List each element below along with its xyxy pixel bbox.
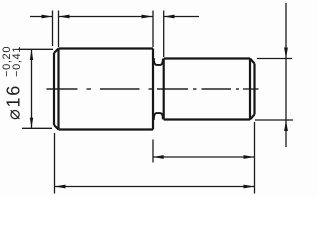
small diameter bottom extension line [255,119,293,121]
top dimension line right segment [164,16,199,18]
diameter 16 top extension line [18,48,53,50]
large cylinder body outline [54,49,153,130]
small cylinder right chamfer edge line [249,59,251,120]
small diameter top extension line [257,58,292,60]
diameter 16 bottom extension line [22,127,52,129]
small cylinder length dimension line [153,156,255,158]
svg-text:⌀16: ⌀16 [4,84,24,120]
arrowhead dia16 down [30,118,33,129]
top dimension line middle segment [59,16,154,18]
arrowhead groove dim right (points left) [164,15,175,19]
left chamfer top diagonal [54,49,59,54]
lower dim extension line (left end face) [54,133,56,194]
large cylinder bottom edge [59,128,154,130]
arrowhead small dia down (above top ext) [284,48,288,59]
right chamfer bottom diagonal [250,115,255,120]
right chamfer top diagonal [250,59,255,64]
top dimension extension line (groove right) [163,11,165,58]
small cylinder left face [163,59,165,120]
large cylinder top edge [59,47,154,49]
diameter 16 dimension line [31,49,33,128]
small cylinder bottom edge [164,118,250,120]
centerline (shaft axis, dash-dot) [47,88,259,90]
arrowhead overall left [55,185,66,189]
arrowhead overall right [244,185,255,189]
large cylinder left end face [53,53,55,125]
relief groove lower profile [154,113,163,120]
left chamfer bottom diagonal [54,125,59,130]
arrowhead small dia up (below bottom ext) [284,120,288,131]
large cylinder right face [152,49,154,130]
arrowhead small length right [244,155,255,159]
arrowhead chamfer dim right (points left) [59,15,70,19]
lower dim extension line (groove left, short) [152,140,154,163]
small diameter dimension line [285,3,287,147]
overall length dimension line [55,186,255,188]
svg-text:−0,41: −0,41 [11,46,23,77]
relief groove upper profile [154,58,163,65]
small cylinder body outline [164,59,255,120]
arrowhead groove dim left (points right) [142,15,154,19]
top dimension extension line (large cyl left face) [52,11,54,47]
dimension text dia 16 -0,20/-0,41 (rotated) [1,46,24,120]
small cylinder top edge [164,57,250,59]
top dimension extension line (left chamfer) [58,11,60,48]
top dimension line left segment [30,16,53,18]
top dimension extension line (groove left) [152,11,154,48]
large cylinder left chamfer edge line [57,49,59,130]
arrowhead chamfer dim left (points right) [42,15,53,19]
small cylinder right end face [253,64,255,115]
arrowhead small length left [153,155,164,159]
arrowhead dia16 up [30,49,33,60]
lower dim extension line (right end face) [254,122,256,194]
